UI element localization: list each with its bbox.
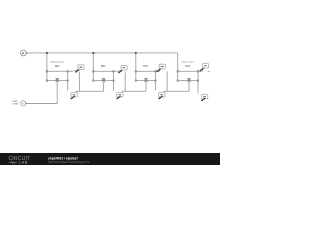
- svg-text:TURN: TURN: [12, 103, 18, 105]
- svg-text:BR2: BR2: [101, 65, 106, 68]
- svg-text:BR3: BR3: [143, 65, 148, 68]
- svg-text:LAB: LAB: [19, 161, 28, 165]
- svg-text:N: N: [22, 102, 24, 106]
- svg-text:Najmanja tezina: Najmanja tezina: [51, 61, 65, 64]
- svg-text:http://circuitlab.com/c/cwsym7: http://circuitlab.com/c/cwsym7e: [48, 160, 90, 164]
- svg-text:Najveca tezina: Najveca tezina: [182, 61, 195, 64]
- svg-text:BR4: BR4: [185, 65, 190, 68]
- svg-text:F: F: [22, 51, 24, 55]
- svg-text:BR1: BR1: [55, 65, 60, 68]
